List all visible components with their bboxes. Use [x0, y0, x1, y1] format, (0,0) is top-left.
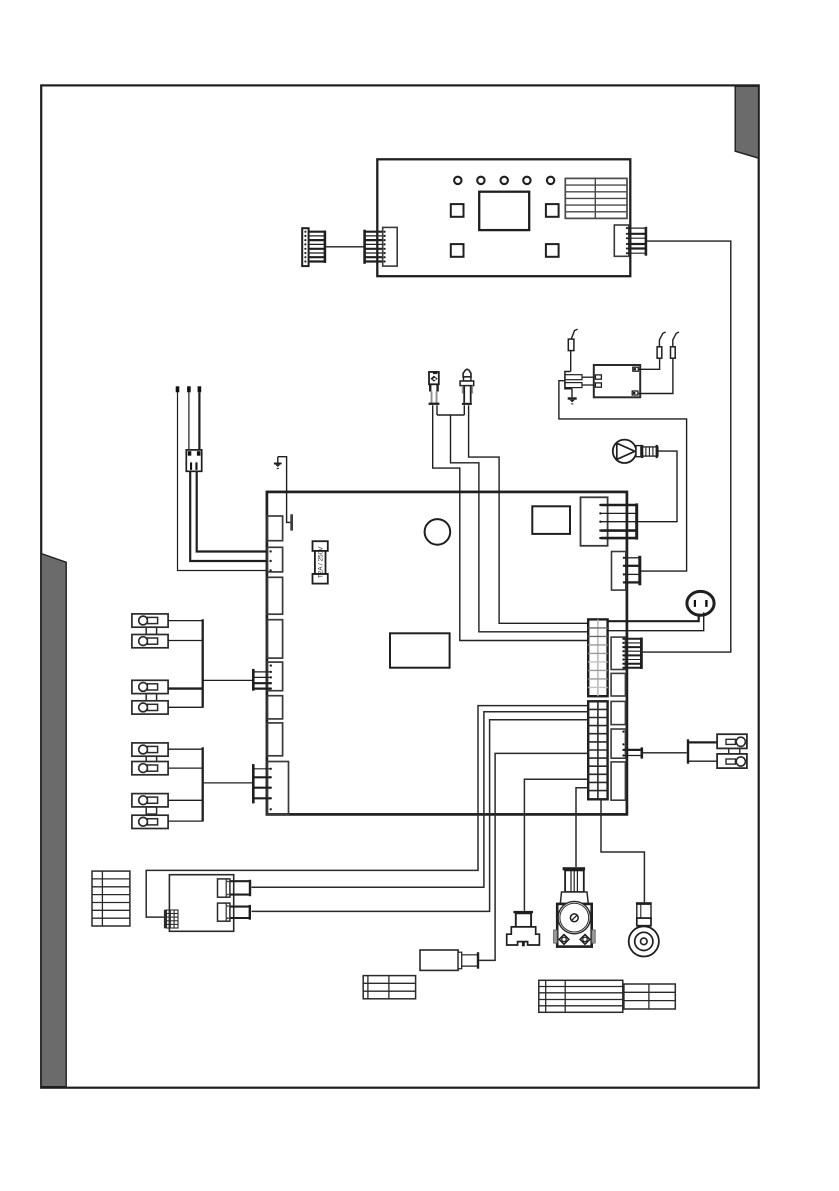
LED L5	[547, 177, 554, 184]
bus bar A	[202, 619, 204, 708]
wire block left leg to B2	[190, 471, 267, 561]
wire E4 right lead to TB1	[469, 405, 589, 623]
connector box CN8	[611, 701, 625, 724]
display board	[377, 159, 630, 276]
wire TB2 row6 to pump	[576, 788, 588, 867]
wire FS left lead to TB1	[433, 405, 589, 640]
wire display J2 to main board connector CN6	[643, 241, 731, 652]
left edge connector B2 (3 pin)	[267, 547, 282, 572]
ignition electrode E1	[568, 329, 577, 371]
spark generator pin P1	[595, 375, 601, 379]
wire P3b to bus C	[168, 767, 203, 769]
harness pin cap 1	[176, 386, 180, 392]
connector CN9 (4 pin to fastons)	[611, 729, 642, 759]
transformer block	[532, 506, 570, 534]
faston terminal pair P3a	[132, 743, 168, 756]
air pressure switch body	[169, 875, 233, 932]
main board	[267, 492, 627, 815]
border frame	[41, 85, 759, 1087]
connector X1 external plug (display left)	[302, 228, 325, 266]
connector CN6 (board right edge, 8 pin)	[611, 637, 641, 669]
wire outlet live to TB1	[608, 614, 699, 622]
corner shade top-right	[735, 86, 758, 158]
wire P2a to bus A	[168, 687, 203, 689]
air switch terminal T2	[218, 903, 250, 921]
wire bus C to comb D	[203, 782, 254, 784]
left edge connector B8 (5 pin)	[267, 762, 288, 815]
wire fan to CN1	[638, 451, 677, 522]
wire bus A to comb B	[203, 679, 254, 681]
spark generator box	[594, 365, 640, 397]
inline connector block	[186, 450, 201, 471]
connector box CN10	[611, 762, 625, 800]
connector CN1 (board top right, 5 pin)	[581, 497, 637, 546]
connector CN2 (4 pin)	[612, 552, 640, 591]
faston pair link P4	[146, 807, 156, 814]
spark generator supply leads	[582, 377, 594, 385]
wire TB2 row3 to air switch terminal 2	[252, 720, 589, 912]
gas valve solenoid	[629, 902, 659, 956]
spark generator HV terminal bottom-right	[632, 391, 638, 395]
faston terminal pair P4a	[132, 794, 168, 807]
ground symbol (spark generator)	[568, 389, 577, 405]
wire spark generator to CN2	[559, 381, 687, 571]
faston terminal pair P1a	[132, 614, 168, 627]
wire bus E to faston R1	[688, 741, 717, 743]
wire P3a to bus C	[168, 748, 203, 750]
plug prong 1	[565, 375, 582, 380]
wire TB2 row2 to air switch terminal 1	[252, 712, 589, 888]
faston terminal pair P3b	[132, 762, 168, 775]
button S2	[546, 204, 559, 217]
ignition electrode E2	[638, 332, 665, 369]
wire joined centre lead to TB1	[437, 405, 588, 632]
wire TB2 row5 to pressure switch	[524, 779, 588, 911]
table T4	[624, 984, 675, 1009]
faston terminal pair P2b	[132, 701, 168, 714]
table T2	[363, 976, 415, 999]
left edge connector box B1	[267, 516, 282, 541]
wire block right leg to B2	[197, 471, 268, 551]
air switch comb connector	[164, 910, 178, 929]
left edge connector box B3	[267, 577, 282, 614]
left edge connector box B7	[267, 723, 282, 756]
water pressure switch	[507, 911, 540, 946]
spark generator HV terminal top-right	[633, 367, 639, 371]
LED L3	[501, 177, 508, 184]
connector J1 on display board (left)	[365, 227, 398, 266]
air switch terminal T1	[218, 879, 251, 897]
wire P2b to bus A	[168, 706, 203, 708]
faston pair link P3	[146, 756, 156, 763]
wire ground to board terminal	[278, 457, 291, 523]
LED L4	[523, 177, 530, 184]
svg-text:T2A / 250V: T2A / 250V	[317, 546, 324, 578]
left edge connector box B6	[267, 696, 282, 719]
left edge connector box B4	[267, 620, 282, 658]
left edge connector B5 (5 pin)	[267, 662, 282, 691]
spark generator pin P2	[595, 383, 601, 387]
wire CN9 to faston bus E	[642, 752, 687, 754]
flame sensor FS	[429, 372, 440, 405]
wire X1 to display board	[326, 246, 364, 248]
LED L2	[477, 177, 484, 184]
button S3	[451, 244, 464, 257]
fuse F1 T2A/250V	[313, 541, 328, 583]
wire TB2 row1 to air switch comb	[146, 706, 588, 918]
LCD display	[479, 192, 529, 230]
ignition electrode E4 (burner)	[460, 369, 474, 405]
faston pair link P2	[146, 694, 156, 701]
harness wire 3	[198, 392, 200, 450]
ground symbol (top of board)	[274, 457, 282, 469]
wire P1a to bus A	[168, 620, 203, 622]
fan motor	[613, 440, 658, 463]
connector J2 on display board (right)	[614, 225, 646, 256]
faston pair link P1	[146, 627, 156, 634]
bus bar E	[687, 739, 689, 763]
plug bracket	[565, 372, 572, 389]
table T1	[92, 871, 130, 926]
jumper table	[565, 178, 627, 218]
faston pair link R	[729, 748, 740, 754]
terminal strip TB1	[588, 619, 607, 696]
side shade left	[41, 554, 66, 1087]
wire bus E to faston R2	[688, 760, 717, 762]
bus bar C	[202, 747, 204, 821]
plug prong 2	[565, 383, 582, 388]
harness pin cap 2	[187, 386, 191, 392]
wire P4b to bus C	[168, 820, 203, 822]
table T3	[539, 980, 623, 1012]
harness wire 1 to B2	[178, 392, 268, 570]
wire outlet neutral to TB1	[608, 612, 704, 630]
terminal strip TB2	[588, 701, 607, 799]
NTC sensor with plug	[420, 950, 478, 970]
faston terminal pair P2a	[132, 680, 168, 693]
wire P1b to bus A	[168, 640, 203, 642]
faston terminal R1	[717, 734, 747, 748]
harness wire 2	[188, 392, 190, 450]
terminal tab on board	[290, 514, 293, 530]
comb connector D at B8	[253, 764, 270, 803]
faston terminal pair P1b	[132, 635, 168, 648]
button S4	[546, 244, 559, 257]
wire TB2 bottom to gas valve	[601, 799, 644, 902]
relay K1	[390, 633, 450, 667]
comb connector B at B5	[253, 669, 270, 691]
harness pin cap 3	[198, 386, 202, 392]
wire P4a to bus C	[168, 799, 203, 801]
button S1	[451, 204, 464, 217]
pump motor	[554, 867, 596, 946]
wire TB2 row4 to NTC sensor	[479, 753, 588, 960]
ignition electrode E3	[638, 332, 679, 394]
buzzer circle	[425, 519, 451, 545]
faston terminal R2	[717, 754, 747, 768]
mains outlet plug	[687, 591, 714, 615]
connector box CN7	[611, 673, 625, 696]
LED L1	[454, 177, 461, 184]
faston terminal pair P4b	[132, 815, 168, 828]
